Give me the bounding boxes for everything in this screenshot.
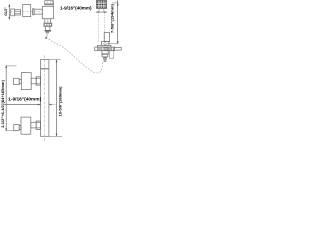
svg-text:1-9/16"(40mm): 1-9/16"(40mm) [8, 96, 42, 101]
svg-text:1-9/16"(40mm): 1-9/16"(40mm) [60, 5, 92, 10]
svg-text:2-1/2"+6-1/2"(64+165mm): 2-1/2"+6-1/2"(64+165mm) [0, 80, 5, 128]
svg-text:7-5/8"(194mm): 7-5/8"(194mm) [109, 3, 114, 33]
svg-text:G1/2": G1/2" [3, 7, 8, 15]
svg-text:10-5/8"(269mm): 10-5/8"(269mm) [58, 86, 63, 117]
